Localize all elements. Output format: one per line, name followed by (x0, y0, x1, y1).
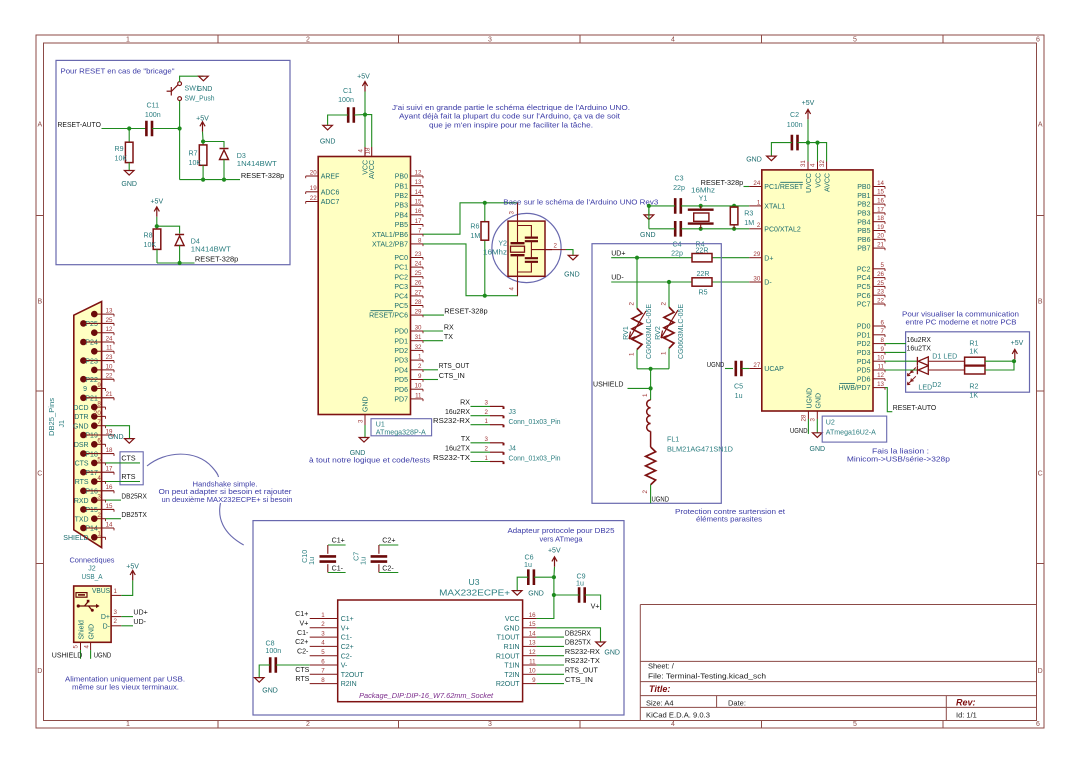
svg-text:PB6: PB6 (857, 237, 870, 244)
svg-text:A: A (37, 122, 42, 129)
svg-text:CTS: CTS (121, 455, 135, 463)
ground at J1 (125, 439, 135, 444)
wire C9 to V+ (585, 595, 601, 610)
varistor RV1 (636, 258, 638, 309)
svg-text:R2OUT: R2OUT (496, 681, 520, 688)
svg-text:4: 4 (810, 163, 817, 167)
wire XTAL2 line (681, 228, 749, 230)
svg-text:C1+: C1+ (295, 610, 308, 618)
svg-text:17: 17 (415, 218, 422, 225)
svg-text:100n: 100n (338, 96, 354, 104)
svg-text:RESET-AUTO: RESET-AUTO (58, 121, 102, 129)
svg-text:R6: R6 (470, 222, 479, 230)
svg-text:C5: C5 (734, 383, 743, 391)
svg-text:C1+: C1+ (341, 616, 354, 623)
svg-text:20: 20 (310, 169, 317, 176)
svg-text:14: 14 (529, 630, 536, 637)
svg-text:SW_Push: SW_Push (185, 94, 215, 102)
svg-text:USHIELD: USHIELD (593, 381, 624, 389)
wire varistor bottoms (637, 368, 669, 370)
svg-text:+5V: +5V (150, 198, 163, 205)
svg-text:PC5: PC5 (394, 303, 408, 310)
svg-text:ATmega16U2-A: ATmega16U2-A (826, 428, 876, 436)
svg-text:C3: C3 (674, 175, 683, 183)
svg-text:32: 32 (415, 344, 422, 351)
wire R9 branch (128, 129, 130, 143)
svg-text:même sur les vieux terminaux.: même sur les vieux terminaux. (72, 682, 179, 691)
svg-text:1: 1 (97, 531, 101, 538)
svg-text:R1OUT: R1OUT (496, 653, 520, 660)
svg-text:31: 31 (415, 334, 422, 341)
svg-text:30: 30 (415, 324, 422, 331)
svg-text:17: 17 (106, 466, 113, 473)
svg-text:vers ATmega: vers ATmega (540, 535, 583, 544)
svg-text:P25: P25 (85, 321, 98, 328)
svg-text:UD-: UD- (611, 274, 624, 282)
ground at GND15 (596, 642, 606, 647)
svg-text:RESET-328p: RESET-328p (241, 172, 284, 180)
svg-text:12: 12 (529, 649, 536, 656)
wire U1 GND (364, 425, 366, 438)
svg-text:GND: GND (363, 396, 370, 412)
svg-text:PC3: PC3 (394, 284, 408, 291)
wire switch to GND (180, 76, 204, 82)
wire D- line (611, 281, 692, 283)
svg-text:R8: R8 (144, 231, 153, 239)
svg-text:DB25_Pins: DB25_Pins (48, 398, 56, 436)
U3 left pins (310, 612, 365, 688)
svg-text:PD1: PD1 (394, 338, 408, 345)
svg-text:GND: GND (564, 272, 580, 279)
resistor R5 (692, 278, 712, 286)
switch SW1 SW_Push (167, 82, 182, 101)
svg-text:un deuxième MAX232ECPE+ si bes: un deuxième MAX232ECPE+ si besoin (162, 495, 293, 504)
ground at Y2 (568, 255, 578, 260)
svg-text:PD6: PD6 (394, 387, 408, 394)
svg-text:18: 18 (365, 147, 372, 154)
U3 right pins (496, 612, 537, 688)
svg-text:18: 18 (106, 447, 113, 454)
wire PD4 to D1 (885, 360, 917, 362)
svg-text:21: 21 (106, 391, 113, 398)
svg-text:PC1: PC1 (394, 265, 408, 272)
ground at C2 (767, 156, 777, 161)
svg-text:UGND: UGND (806, 388, 813, 409)
svg-text:UGND: UGND (652, 496, 670, 504)
svg-text:1K: 1K (969, 347, 978, 355)
svg-text:7: 7 (321, 668, 325, 675)
wire R9 to GND (128, 163, 130, 171)
svg-text:CTS: CTS (75, 461, 89, 468)
U2 reference box (822, 416, 887, 442)
svg-text:20: 20 (877, 233, 884, 240)
svg-text:PD0: PD0 (857, 324, 871, 331)
svg-text:21: 21 (877, 242, 884, 249)
resistor R3 (732, 204, 736, 208)
svg-text:GND: GND (504, 625, 520, 632)
svg-text:à tout notre logique et code/t: à tout notre logique et code/tests (309, 455, 430, 464)
title block (640, 605, 1036, 721)
svg-text:3: 3 (97, 494, 101, 501)
svg-text:LED: LED (943, 353, 957, 361)
svg-text:Pour RESET en cas de "bricage": Pour RESET en cas de "bricage" (61, 67, 175, 76)
wire C5 to UCAP (742, 368, 750, 370)
wire U1 RESET label (423, 314, 444, 316)
wire RTS_OUT (423, 369, 438, 371)
svg-text:DB25TX: DB25TX (565, 639, 591, 647)
svg-text:PD4: PD4 (857, 359, 871, 366)
svg-text:AVCC: AVCC (369, 160, 376, 179)
svg-text:26: 26 (877, 271, 884, 278)
svg-text:16u2TX: 16u2TX (445, 445, 470, 453)
svg-text:8: 8 (321, 677, 325, 684)
svg-text:B: B (37, 299, 42, 306)
svg-text:RXD: RXD (74, 498, 89, 505)
svg-text:1: 1 (114, 588, 118, 595)
U2 bottom pins (807, 411, 809, 419)
svg-text:PB4: PB4 (857, 219, 870, 226)
svg-text:C2+: C2+ (295, 638, 308, 646)
svg-text:17: 17 (877, 206, 884, 213)
svg-text:Date:: Date: (728, 698, 746, 707)
svg-text:5: 5 (881, 262, 885, 269)
svg-text:VBUS: VBUS (92, 588, 110, 595)
svg-text:10K: 10K (189, 159, 202, 167)
svg-text:Conn_01x03_Pin: Conn_01x03_Pin (509, 418, 561, 426)
svg-text:8: 8 (97, 401, 101, 408)
wire R2 return (985, 361, 1014, 370)
wire RX (423, 330, 443, 332)
svg-text:+5V: +5V (357, 74, 370, 81)
svg-text:15: 15 (106, 503, 113, 510)
svg-text:Connectiques: Connectiques (70, 556, 115, 565)
svg-text:C2+: C2+ (382, 536, 395, 544)
svg-text:P23: P23 (85, 358, 98, 365)
svg-text:C1+: C1+ (332, 536, 345, 544)
junction R8 top (155, 224, 159, 228)
svg-text:P18: P18 (85, 451, 98, 458)
svg-text:3: 3 (485, 400, 489, 407)
svg-text:C1: C1 (343, 87, 352, 95)
svg-text:16Mhz: 16Mhz (691, 186, 716, 194)
ground below R9 (124, 171, 134, 176)
wire C1 to GND (328, 115, 348, 125)
svg-text:PB4: PB4 (395, 212, 408, 219)
wire USHIELD at J2 (80, 650, 82, 659)
svg-text:PC7: PC7 (857, 302, 871, 309)
ic U2 ATmega16U2-A body (762, 170, 873, 411)
wire C8 to V- (276, 664, 310, 666)
svg-text:éléments parasites: éléments parasites (696, 515, 762, 524)
svg-text:3: 3 (485, 436, 489, 443)
svg-text:CG0603MLC-05E: CG0603MLC-05E (645, 304, 653, 359)
svg-text:Conn_01x03_Pin: Conn_01x03_Pin (509, 455, 561, 463)
svg-text:24: 24 (106, 335, 113, 342)
wire +5V down to VCC (364, 92, 366, 115)
svg-text:R9: R9 (115, 145, 124, 153)
svg-text:PB5: PB5 (857, 228, 870, 235)
svg-text:Package_DIP:DIP-16_W7.62mm_Soc: Package_DIP:DIP-16_W7.62mm_Socket (359, 691, 494, 700)
wire TX (423, 340, 443, 342)
svg-text:PB0: PB0 (395, 174, 408, 181)
svg-text:6: 6 (1036, 721, 1040, 728)
svg-text:7: 7 (418, 228, 422, 235)
svg-text:TXD: TXD (75, 516, 89, 523)
svg-text:PD3: PD3 (857, 350, 871, 357)
svg-text:24: 24 (753, 180, 760, 187)
svg-text:T2OUT: T2OUT (341, 672, 365, 679)
resonator Y2 body (508, 221, 545, 276)
svg-text:GND: GND (108, 434, 124, 441)
svg-text:10K: 10K (115, 155, 128, 163)
svg-text:RTS_OUT: RTS_OUT (439, 362, 470, 370)
svg-text:C: C (37, 471, 42, 478)
svg-text:PC2: PC2 (857, 266, 871, 273)
svg-text:P19: P19 (85, 433, 98, 440)
svg-text:1: 1 (642, 393, 649, 397)
svg-text:GND: GND (88, 624, 95, 640)
svg-text:1: 1 (485, 455, 489, 462)
svg-text:D+: D+ (101, 614, 110, 621)
U2 left pins (749, 180, 804, 373)
junction VCC node (363, 113, 367, 117)
svg-text:2: 2 (554, 243, 558, 250)
svg-text:UD+: UD+ (611, 249, 625, 257)
Y2 internal wires (518, 226, 553, 273)
connector J2 USB_A body (74, 586, 111, 642)
svg-text:PD6: PD6 (857, 376, 871, 383)
svg-text:22: 22 (310, 195, 317, 202)
svg-text:26: 26 (415, 280, 422, 287)
svg-text:4: 4 (321, 640, 325, 647)
ground mid cluster (644, 215, 654, 220)
svg-text:23: 23 (877, 289, 884, 296)
svg-text:XTAL1/PB6: XTAL1/PB6 (372, 232, 408, 239)
resistor R7 (202, 142, 204, 145)
svg-text:VCC: VCC (505, 616, 520, 623)
junction 5V LED (1012, 359, 1016, 363)
wire +5V to UVCC (807, 119, 809, 142)
wire USHIELD (628, 387, 651, 389)
svg-text:PD4: PD4 (394, 367, 408, 374)
svg-text:PD2: PD2 (394, 348, 408, 355)
svg-text:1: 1 (757, 199, 761, 206)
wire J1 RTS (106, 481, 141, 483)
svg-text:100n: 100n (145, 111, 161, 119)
wire D+ line (611, 257, 692, 259)
svg-text:1M: 1M (744, 219, 754, 227)
svg-text:B: B (1038, 299, 1043, 306)
svg-text:entre PC moderne et notre PCB: entre PC moderne et notre PCB (906, 317, 1017, 326)
svg-text:22p: 22p (673, 184, 685, 192)
ground below U1 (359, 438, 369, 443)
svg-text:GND: GND (262, 687, 278, 694)
svg-text:1: 1 (126, 37, 130, 44)
junction RV2 top (667, 280, 671, 284)
svg-text:que je m'en inspire pour me fa: que je m'en inspire pour me faciliter la… (429, 120, 593, 129)
ground at C6 (512, 591, 522, 596)
svg-text:Ayant déjà fait la plupart du: Ayant déjà fait la plupart du code sur l… (399, 112, 620, 121)
junction C9 node (552, 593, 556, 597)
svg-text:27: 27 (753, 362, 760, 369)
svg-text:100n: 100n (265, 647, 281, 655)
U1 right pins (369, 169, 423, 403)
J2 pin D+ (111, 616, 121, 618)
wire UGND to C5 (725, 368, 733, 370)
svg-text:8: 8 (418, 237, 422, 244)
svg-text:TX: TX (444, 333, 453, 341)
svg-text:3: 3 (488, 721, 492, 728)
svg-text:VCC: VCC (815, 173, 822, 188)
wire +5V to R7 (202, 132, 205, 142)
J1 pins (63, 308, 114, 543)
svg-text:12: 12 (415, 169, 422, 176)
wire XTAL1 to R6 top (423, 203, 518, 234)
svg-text:UGND: UGND (94, 652, 112, 660)
wire UGND at J2 (90, 650, 92, 659)
note circle around Y2 (492, 213, 561, 282)
junction switch node (178, 126, 182, 130)
svg-text:V+: V+ (591, 602, 600, 610)
svg-text:+5V: +5V (1011, 340, 1024, 347)
connector J1 DB25 body (74, 302, 102, 548)
svg-text:CTS_IN: CTS_IN (439, 372, 465, 380)
resistor R9 (125, 142, 133, 162)
svg-text:R2IN: R2IN (341, 681, 357, 688)
svg-text:15: 15 (529, 621, 536, 628)
svg-text:3: 3 (810, 418, 817, 422)
svg-text:RTS: RTS (121, 473, 135, 481)
svg-text:RS232-RX: RS232-RX (565, 648, 600, 656)
wire switch vertical (179, 100, 181, 179)
svg-text:2: 2 (642, 490, 649, 494)
svg-text:P16: P16 (85, 489, 98, 496)
svg-text:V+: V+ (300, 620, 309, 628)
svg-text:Id: 1/1: Id: 1/1 (956, 710, 977, 719)
svg-text:20: 20 (94, 410, 101, 417)
svg-text:1N414BWT: 1N414BWT (237, 160, 278, 168)
label UGND under U2 (807, 419, 809, 434)
svg-text:J2: J2 (88, 564, 96, 572)
svg-text:5: 5 (73, 645, 80, 649)
svg-text:PB3: PB3 (857, 211, 870, 218)
wire VCC riser (537, 595, 554, 619)
svg-text:P14: P14 (85, 526, 98, 533)
svg-text:A: A (1038, 122, 1043, 129)
wire R7 D3 top link (203, 142, 224, 148)
J2 pin D- (111, 625, 121, 627)
svg-text:PD3: PD3 (394, 358, 408, 365)
J2 bottom pins (80, 642, 82, 650)
junction shield node (649, 386, 653, 390)
svg-text:1u: 1u (735, 392, 743, 400)
svg-text:PB0: PB0 (857, 184, 870, 191)
svg-text:DB25TX: DB25TX (121, 511, 147, 519)
svg-text:UD+: UD+ (133, 609, 147, 617)
svg-text:11: 11 (415, 392, 422, 399)
svg-text:PD0: PD0 (394, 329, 408, 336)
svg-text:GND: GND (640, 232, 656, 239)
svg-text:9: 9 (83, 386, 87, 393)
svg-text:D2: D2 (932, 381, 941, 389)
svg-text:1u: 1u (308, 557, 316, 565)
wire RESET to PC1 (744, 186, 750, 188)
svg-text:2: 2 (306, 721, 310, 728)
ic U1 ATmega328P-A body (318, 157, 410, 415)
svg-text:12: 12 (877, 372, 884, 379)
svg-text:RTS_OUT: RTS_OUT (565, 667, 599, 675)
svg-text:2: 2 (757, 222, 761, 229)
svg-text:DB25RX: DB25RX (121, 492, 147, 500)
svg-text:22: 22 (106, 373, 113, 380)
Y2 crystal element (517, 203, 519, 243)
svg-text:SHIELD: SHIELD (63, 535, 88, 542)
svg-text:UGND: UGND (707, 361, 725, 369)
svg-text:18: 18 (877, 215, 884, 222)
svg-text:2: 2 (418, 363, 422, 370)
svg-text:T1OUT: T1OUT (497, 635, 521, 642)
svg-text:D-: D- (764, 280, 772, 287)
svg-text:U2: U2 (826, 418, 835, 426)
resistor R8 (153, 229, 161, 249)
svg-text:GND: GND (528, 590, 544, 597)
svg-text:P21: P21 (85, 396, 98, 403)
svg-text:PC2: PC2 (394, 274, 408, 281)
svg-text:2: 2 (485, 409, 489, 416)
wire +5V to R8 (156, 217, 158, 229)
svg-text:D1: D1 (932, 353, 941, 361)
svg-text:RS232-TX: RS232-TX (565, 657, 600, 665)
svg-text:1M: 1M (470, 232, 480, 240)
diode D4 (175, 235, 184, 246)
svg-text:P24: P24 (85, 340, 98, 347)
junction VCC2 (815, 141, 819, 145)
svg-text:25: 25 (106, 317, 113, 324)
svg-text:RX: RX (444, 323, 454, 331)
wire AVCC branch (365, 115, 372, 147)
svg-text:PB3: PB3 (395, 203, 408, 210)
svg-text:PC5: PC5 (857, 284, 871, 291)
junction UVCC (806, 141, 810, 145)
svg-text:4: 4 (97, 475, 101, 482)
wire C8 to GND (259, 665, 270, 678)
svg-text:XTAL2/PB7: XTAL2/PB7 (372, 242, 408, 249)
wire GND drop (648, 206, 650, 215)
svg-text:14: 14 (106, 521, 113, 528)
wire GND under U2 (816, 419, 818, 433)
svg-text:Title:: Title: (649, 684, 670, 694)
svg-text:5: 5 (97, 456, 101, 463)
svg-text:PD2: PD2 (857, 341, 871, 348)
svg-text:UVCC: UVCC (806, 173, 813, 193)
svg-text:13: 13 (106, 308, 113, 315)
svg-text:Shield: Shield (78, 620, 85, 640)
svg-text:1: 1 (321, 612, 325, 619)
svg-text:D: D (1038, 668, 1043, 675)
wire down to shield node (650, 369, 652, 389)
svg-text:PD7: PD7 (394, 397, 408, 404)
wire 16u2RX (885, 343, 906, 345)
svg-text:V+: V+ (341, 625, 350, 632)
svg-text:J4: J4 (509, 444, 517, 452)
svg-text:PC4: PC4 (857, 275, 871, 282)
svg-text:3: 3 (321, 630, 325, 637)
svg-text:1: 1 (126, 721, 130, 728)
wire RESET-AUTO to C11 (102, 128, 147, 130)
U1 left pins (306, 169, 340, 206)
wire J1 GND (106, 426, 130, 439)
inductor FL1 (650, 388, 652, 400)
